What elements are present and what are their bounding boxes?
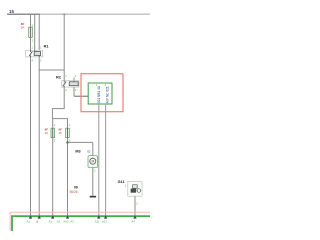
relay R1 coil: [34, 50, 40, 57]
component G11 symbol: [131, 185, 141, 193]
connector arrow W14: [51, 215, 54, 218]
pin marks above relay R2: [65, 74, 77, 78]
pin marks above relay R1: [31, 46, 42, 50]
svg-text:A10: A10: [63, 220, 68, 224]
wire W7 branch to R2: [39, 69, 64, 71]
wire W12 R2 coil down: [73, 87, 75, 96]
svg-text:2: 2: [136, 202, 138, 206]
svg-text:A4: A4: [131, 220, 135, 224]
svg-text:50/26: 50/26: [70, 190, 78, 194]
wire W19 module pin down left: [98, 104, 100, 216]
svg-text:15: 15: [58, 131, 62, 135]
wire W6 R1 coil down to connector: [38, 57, 40, 216]
motor tag M3: [75, 149, 80, 153]
wire W18 motor to ground: [92, 168, 94, 196]
wire W3 bus to R1 coil: [38, 14, 40, 51]
svg-text:4: 4: [65, 88, 67, 92]
wire W20 module pin down right: [105, 104, 107, 216]
svg-text:1: 1: [65, 74, 67, 78]
wire W21 G11 down to connector: [135, 196, 138, 216]
svg-text:B: B: [36, 220, 38, 224]
ground: [90, 196, 96, 198]
svg-text:2: 2: [75, 74, 77, 78]
connector pin labels: [27, 220, 136, 224]
svg-text:M3: M3: [75, 149, 80, 153]
wire W8 R2 contact down: [63, 87, 65, 109]
svg-text:2: 2: [32, 39, 34, 43]
svg-text:A2: A2: [70, 220, 74, 224]
module rotated pin name 2: [106, 86, 110, 103]
wire W14 fuse 9F1 down to connector: [52, 138, 54, 216]
wire W16 branch to motor: [68, 141, 93, 143]
pin marks below relay R1: [31, 59, 42, 63]
fuse 8F label: [21, 22, 25, 29]
svg-text:A1: A1: [27, 220, 31, 224]
svg-text:R2: R2: [56, 75, 62, 80]
connector arrow W20: [104, 215, 107, 218]
connector arrow W21: [133, 215, 136, 218]
svg-text:M: M: [92, 160, 95, 164]
svg-text:15: 15: [9, 9, 14, 14]
relay R2 tag: [56, 75, 62, 80]
fuse 8F: [29, 27, 33, 37]
fuse 9F2 label: [58, 127, 62, 134]
motor M: [88, 156, 98, 168]
junction W15 motor branch: [67, 142, 69, 144]
connector arrow W6: [38, 215, 41, 218]
svg-text:2: 2: [54, 139, 56, 143]
module rotated pin name 1: [97, 85, 101, 103]
wire W2 bus to R1 middle pin: [34, 14, 36, 51]
svg-text:2: 2: [40, 59, 42, 63]
connector arrow W19: [97, 215, 100, 218]
svg-text:A1: A1: [49, 220, 53, 224]
svg-text:5A: 5A: [21, 26, 25, 30]
svg-text:G11: G11: [118, 180, 125, 184]
svg-text:1: 1: [31, 46, 33, 50]
connector arrow W5: [29, 215, 32, 218]
wire W11 fuse feed bus: [52, 118, 67, 128]
svg-text:4: 4: [31, 59, 33, 63]
wire W17 down to motor: [92, 142, 94, 155]
svg-text:06: 06: [74, 185, 78, 189]
relay R1 contact: [29, 50, 32, 57]
wire W5 R1 contact down to connector: [30, 57, 32, 216]
svg-text:A/V NC 021: A/V NC 021: [106, 86, 110, 103]
wire W15 fuse 9F2 down to connector: [67, 138, 69, 216]
svg-text:2: 2: [75, 88, 77, 92]
fuse 9F2: [66, 128, 70, 137]
selection box red: [81, 74, 123, 112]
svg-text:R1: R1: [44, 44, 50, 49]
svg-text:1: 1: [40, 46, 42, 50]
svg-text:2: 2: [94, 168, 96, 172]
pin marks below relay R2: [65, 88, 77, 92]
svg-text:1: 1: [54, 123, 56, 127]
relay R1 tag: [44, 44, 50, 49]
svg-text:A12: A12: [102, 220, 107, 224]
wire W10 down: [51, 108, 53, 118]
component G11 box: [128, 182, 142, 197]
relay R2 coil stub: [73, 78, 75, 82]
wire W1 bus to fuse 8F: [30, 14, 32, 51]
wire bus 15: [7, 13, 150, 15]
relay R1 box: [26, 50, 43, 57]
fuse 9F1: [51, 128, 55, 137]
svg-text:1: 1: [32, 24, 34, 28]
wire W9 jog left: [52, 108, 64, 110]
connector strip green: [12, 216, 150, 231]
relay R2 coil: [69, 82, 78, 86]
wire W4 bus down to R2: [63, 14, 65, 81]
module A green box: [88, 83, 112, 104]
relay R2 contact: [63, 81, 66, 87]
relay R2 box: [62, 81, 79, 87]
svg-text:A11: A11: [95, 220, 100, 224]
wire W13 into module: [74, 95, 88, 97]
net 15 label: [9, 9, 14, 14]
fuse 9F1 label: [45, 127, 49, 134]
svg-text:1: 1: [69, 123, 71, 127]
component G11 tag: [118, 180, 127, 188]
svg-text:1: 1: [125, 184, 127, 188]
svg-text:021 NB1 4A: 021 NB1 4A: [97, 85, 101, 103]
svg-text:10: 10: [45, 131, 49, 135]
svg-text:A2: A2: [57, 220, 61, 224]
connector arrow W15: [66, 215, 69, 218]
module pin labels green top: [96, 83, 107, 87]
harness box pink: [10, 212, 150, 231]
wire number label blue: [87, 150, 91, 154]
